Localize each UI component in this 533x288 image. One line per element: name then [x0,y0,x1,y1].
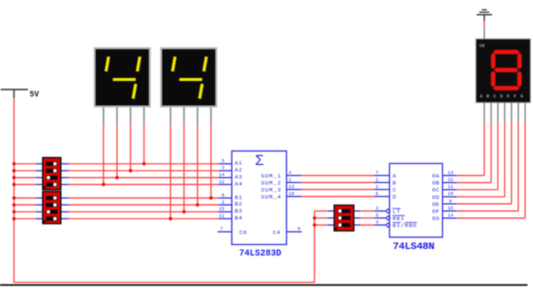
svg-text:B: B [393,180,397,187]
hex display U4 showing 4 [160,47,217,125]
svg-text:OA: OA [432,173,440,180]
junction riser S3 row 2 [313,216,316,219]
pin stub left S1.3 [36,177,42,179]
wire OA to display segment A [457,175,485,177]
svg-text:OE: OE [432,201,440,208]
svg-text:2: 2 [222,199,225,205]
U2 pin 13 OA [443,175,457,177]
wire B3 switch to U1 [69,211,219,213]
wire B4 switch to U1 [69,218,219,220]
svg-text:SUM_1: SUM_1 [261,173,282,180]
U2 pin 1 B [375,182,390,184]
pin stub left S2.2 [36,204,42,206]
junction B2 display tap [196,203,199,206]
wire display U3 pin 3 down to B2 [197,125,199,205]
svg-text:LT: LT [393,208,401,215]
wire display U2 pin 1 down to A4 [103,125,105,185]
wire ground to CK [483,21,485,27]
wire B1 switch to U1 [69,197,219,199]
U1 pin 1 SUM_2 [287,182,302,184]
ground symbol [477,10,492,21]
svg-text:OD: OD [432,194,440,201]
junction B1 display tap [209,196,212,199]
svg-text:6: 6 [222,192,225,198]
wire SUM_4 to decoder [301,196,375,198]
wire OG to display segment G [457,217,526,219]
wire SUM_1 to decoder [301,175,375,177]
pin stub left S2.1 [36,197,42,199]
junction rail A3 [12,176,15,179]
svg-text:Σ: Σ [255,154,264,170]
svg-text:1: 1 [289,177,292,183]
pin stub left S1.1 [36,163,42,165]
wire OD to display segment D [457,196,505,198]
junction A3 display tap [115,176,118,179]
junction rail A2 [12,169,15,172]
DIP switch block S1 (A inputs) [42,157,62,191]
wire 5V rail to A-switch row 4 [14,184,36,186]
svg-text:G: G [521,93,524,99]
wire 5V rail to A-switch row 1 [14,163,36,165]
svg-text:CK: CK [479,43,485,49]
svg-text:3: 3 [376,205,379,211]
junction rail B2 [12,203,15,206]
wire S3 row 3 to U2 [361,224,375,226]
svg-text:4: 4 [289,170,292,176]
wire display U2 pin 3 down to A2 [130,125,132,171]
U2 pin 6 D [375,196,390,198]
wire display U3 pin 4 down to B1 [210,125,212,198]
svg-text:7: 7 [376,170,379,176]
svg-text:SUM_4: SUM_4 [261,194,282,201]
seven segment display U5 showing 8 [475,26,531,122]
junction rail B4 [12,217,15,220]
svg-text:C: C [393,187,397,194]
svg-text:D: D [393,194,397,201]
svg-text:B: B [487,93,490,99]
wire display U2 pin 2 down to A3 [116,125,118,178]
wire OB to display segment B [457,182,492,184]
svg-text:4: 4 [376,219,379,225]
svg-text:5V: 5V [30,90,40,99]
svg-text:D: D [500,93,503,99]
junction B4 display tap [169,217,172,220]
pin stub left S3.2 [328,217,334,219]
wire 5V vertical rail [13,98,15,282]
junction A4 display tap [102,183,105,186]
svg-text:14: 14 [219,172,225,178]
svg-text:12: 12 [448,177,454,183]
junction B3 display tap [182,210,185,213]
svg-text:11: 11 [448,184,454,190]
U1 pin 7 C0 [218,231,232,233]
U1 pin 2 B2 [219,204,232,206]
pin stub left S3.3 [328,224,334,226]
pin stub right S3.3 [355,224,361,226]
U2 pin 11 OC [443,189,457,191]
svg-text:OF: OF [432,208,440,215]
wire riser to LT/RBI/BI switch block [314,211,316,282]
pin stub right S1.3 [62,177,69,179]
wire A2 switch to U1 [69,170,219,172]
U1 pin 13 SUM_3 [287,189,302,191]
U1 pin 12 A4 [219,184,232,186]
wire riser to S3 row 3 [315,224,328,226]
svg-text:1: 1 [376,177,379,183]
svg-text:A4: A4 [235,180,243,187]
svg-text:11: 11 [219,213,225,219]
wire S3 row 1 to U2 [361,210,375,212]
svg-text:C4: C4 [273,229,281,236]
pin stub right S1.4 [62,184,69,186]
svg-text:6: 6 [376,191,379,197]
svg-text:SUM_2: SUM_2 [261,180,282,187]
wire 5V rail to A-switch row 3 [14,177,36,179]
svg-text:9: 9 [449,198,452,204]
svg-text:74LS48N: 74LS48N [393,241,435,253]
svg-text:F: F [514,93,517,99]
wire 5V rail to B-switch row 1 [14,197,36,199]
pin stub left S2.3 [36,211,42,213]
svg-text:3: 3 [222,165,225,171]
U2 pin 3 LT (active low) [375,210,386,212]
U1 pin 6 B1 [219,197,232,199]
wire SUM_3 to decoder [301,189,375,191]
svg-text:B4: B4 [235,215,243,222]
U2 pin 9 OE [443,203,457,205]
junction rail B3 [12,210,15,213]
wire 5V rail to A-switch row 2 [14,170,36,172]
svg-text:SUM_3: SUM_3 [261,187,282,194]
pin stub left S1.4 [36,184,42,186]
svg-text:5: 5 [222,158,225,164]
svg-text:13: 13 [448,170,454,176]
pin stub right S2.2 [62,204,69,206]
wire bottom rail to BI switch riser [13,281,314,283]
svg-text:C0: C0 [239,229,247,236]
pin stub right S2.1 [62,197,69,199]
svg-text:5: 5 [376,212,379,218]
svg-text:15: 15 [219,206,225,212]
U2 pin 2 C [375,189,390,191]
svg-text:12: 12 [219,179,225,185]
U2 pin 14 OG [443,217,457,219]
wire riser to S3 row 1 [315,210,328,212]
wire SUM_2 to decoder [301,182,375,184]
U2 pin 15 OF [443,210,457,212]
pin stub right S1.1 [62,163,69,165]
DIP switch block S2 (B inputs) [42,191,62,225]
wire 5V rail to B-switch row 2 [14,204,36,206]
junction rail A4 [12,183,15,186]
svg-text:C: C [493,93,496,99]
U2 pin 5 RBI (active low) [375,217,386,219]
wire 5V rail to B-switch row 4 [14,218,36,220]
wire riser to S3 row 2 [315,217,328,219]
wire OE to display segment E [457,203,512,205]
U1 pin 10 SUM_4 [287,196,302,198]
wire OF to display segment F [457,210,519,212]
pin stub right S2.3 [62,211,69,213]
wire display U2 pin 4 down to A1 [143,125,145,164]
svg-text:74LS283D: 74LS283D [239,248,281,258]
svg-text:10: 10 [289,191,295,197]
wire 5V rail to B-switch row 3 [14,211,36,213]
U1 pin 14 A3 [219,177,232,179]
pin stub right S3.2 [355,217,361,219]
hex display U3 showing 4 [94,47,151,125]
U1 pin 5 A1 [219,163,232,165]
svg-text:14: 14 [448,213,454,219]
U1 pin 15 B3 [219,211,232,213]
wire display U3 pin 1 down to B4 [170,125,172,219]
junction riser S3 row 3 [313,223,316,226]
U2 pin 7 A [375,175,390,177]
wire A4 switch to U1 [69,184,219,186]
svg-text:E: E [507,93,510,99]
svg-text:7: 7 [220,226,223,232]
DIP switch block S3 (LT/RBI/BI) [334,205,355,232]
U1 pin 3 A2 [219,170,232,172]
junction A2 display tap [129,169,132,172]
U2 pin 10 OD [443,196,457,198]
pin stub left S2.4 [36,218,42,220]
pin stub left S3.1 [328,210,334,212]
svg-text:10: 10 [448,191,454,197]
wire A3 switch to U1 [69,177,219,179]
U2 pin 12 OB [443,182,457,184]
svg-text:9: 9 [298,226,301,232]
wire display U3 pin 2 down to B3 [183,125,185,212]
svg-text:15: 15 [448,205,454,211]
op: BCD decoder U2 74LS48N body [390,164,443,238]
svg-text:13: 13 [289,184,295,190]
wire S3 row 2 to U2 [361,217,375,219]
pin stub left S1.2 [36,170,42,172]
wire A1 switch to U1 [69,163,219,165]
svg-text:OB: OB [432,180,440,187]
junction A1 display tap [142,162,145,165]
svg-text:2: 2 [376,184,379,190]
U1 pin 9 C4 [287,231,302,233]
wire OC to display segment C [457,189,498,191]
junction rail A1 [12,162,15,165]
svg-text:BI/RBO: BI/RBO [393,222,417,229]
U1 pin 11 B4 [219,218,232,220]
svg-text:OC: OC [432,187,440,194]
svg-text:RBI: RBI [393,215,405,222]
svg-text:A: A [393,173,397,180]
power supply VCC 5V [1,90,40,100]
svg-text:A: A [480,93,483,99]
pin stub right S1.2 [62,170,69,172]
op: 4-bit adder U1 74LS283D body [232,151,287,245]
U2 pin 4 BI/RBO (active low) [375,224,386,226]
wire B2 switch to U1 [69,204,219,206]
pin stub right S2.4 [62,218,69,220]
pin stub right S3.1 [355,210,361,212]
svg-text:OG: OG [432,215,440,222]
junction rail B1 [12,196,15,199]
U1 pin 4 SUM_1 [287,175,302,177]
